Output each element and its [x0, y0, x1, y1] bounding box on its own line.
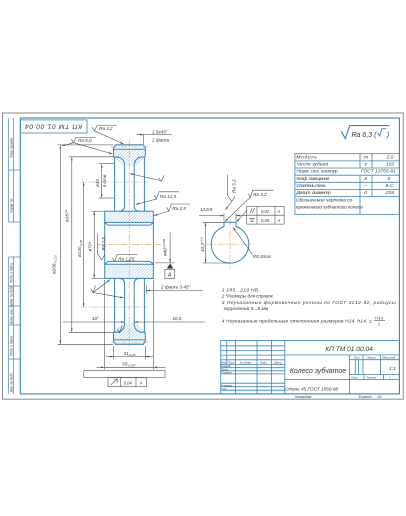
svg-text:–: – — [364, 184, 368, 189]
svg-text:Степень точн.: Степень точн. — [296, 183, 326, 189]
svg-text:Копировал: Копировал — [295, 395, 312, 399]
svg-text:КП ТМ 01.00.04: КП ТМ 01.00.04 — [325, 346, 373, 353]
svg-text:Изм.: Изм. — [221, 360, 227, 364]
svg-text:Формат: Формат — [359, 395, 372, 399]
svg-text:Ra 3,2: Ra 3,2 — [231, 179, 236, 193]
bore dim ext line — [155, 262, 175, 264]
symmetry frame — [247, 215, 284, 224]
web faces top — [124, 166, 126, 206]
ext lines 12Js9 — [223, 213, 225, 221]
svg-text:№ докум.: № докум. — [240, 360, 252, 364]
svg-text:0,05: 0,05 — [261, 218, 270, 223]
svg-text:скруглений 5...8 мм: скруглений 5...8 мм — [224, 305, 269, 312]
svg-text:А: А — [277, 218, 281, 223]
svg-text:0,02: 0,02 — [261, 209, 270, 214]
MAIN VIEW GROUP — [52, 126, 206, 387]
gear parameter table — [295, 154, 400, 215]
ext lines diameter 208 — [58, 144, 114, 146]
runout callout bar — [84, 371, 165, 378]
ext lines 43.3 — [203, 221, 224, 223]
svg-text:4 Неуказанные предельные откл: 4 Неуказанные предельные отклонения разм… — [222, 318, 372, 324]
svg-text:8-С: 8-С — [386, 183, 394, 189]
svg-text:.: . — [386, 319, 387, 324]
bore dim line dia 40H — [169, 232, 171, 262]
runout tolerance frame — [108, 378, 146, 387]
svg-text:ø70*: ø70* — [87, 242, 92, 252]
svg-text:m: m — [364, 155, 368, 160]
datum A triangle — [167, 263, 173, 268]
svg-text:Ra 12,5: Ra 12,5 — [160, 194, 177, 199]
roughness marks main view — [62, 126, 190, 333]
small v bottom rim — [117, 326, 122, 333]
svg-text:0,04: 0,04 — [124, 381, 133, 386]
svg-text:Ra 2,5: Ra 2,5 — [172, 206, 186, 211]
dim line dia 70 — [93, 212, 95, 278]
svg-text:2,0: 2,0 — [386, 154, 394, 160]
svg-text:Сталь 45 ГОСТ 1050-88: Сталь 45 ГОСТ 1050-88 — [285, 386, 339, 391]
leader from tolerance frames to keyway — [237, 211, 247, 222]
svg-text:Лист: Лист — [350, 376, 359, 380]
svg-text:Ra 1,25: Ra 1,25 — [118, 256, 135, 261]
dim line 50 — [97, 366, 105, 368]
bore chamfer edge top — [105, 221, 154, 223]
svg-text:Листов: Листов — [365, 376, 376, 380]
title block — [221, 341, 400, 400]
left margin rotated labels — [10, 137, 14, 392]
svg-text:А3: А3 — [377, 395, 382, 399]
Ra 12.5 leader — [136, 192, 179, 205]
Ra 2.5 right leader — [154, 204, 190, 216]
svg-text:Подп. и дата: Подп. и дата — [10, 263, 14, 283]
R0.3 leader — [233, 227, 252, 254]
svg-text:10,5: 10,5 — [173, 316, 182, 321]
svg-text:102: 102 — [386, 162, 394, 168]
parallelism frame — [247, 206, 284, 215]
Ra 1.25 in bore — [112, 254, 137, 261]
svg-text:Ra 5,0: Ra 5,0 — [78, 138, 92, 143]
svg-text:Перв. примен.: Перв. примен. — [10, 137, 14, 158]
pitch line top rim — [111, 146, 149, 148]
svg-text:Инв. № дубл.: Инв. № дубл. — [10, 285, 14, 305]
ext lines hole dia 40 — [99, 163, 114, 165]
hub top hatch band — [105, 211, 154, 222]
svg-text:IT14: IT14 — [375, 316, 384, 321]
svg-text:): ) — [386, 132, 389, 139]
centerline horizontal gear axis — [97, 244, 161, 246]
bore wall top — [108, 224, 150, 226]
small v web left leaders — [91, 285, 124, 297]
svg-text:Масса: Масса — [368, 356, 376, 360]
Ra 5.0 — [62, 137, 96, 146]
chamfer callout 1.5x45 — [143, 135, 145, 144]
DIMENSIONS main view — [58, 135, 206, 387]
ext lines diameter 187 — [69, 156, 113, 158]
rim bottom hatch — [114, 323, 146, 340]
fillet hatch top web/hub junction — [119, 206, 140, 211]
svg-text:Т.контр.: Т.контр. — [221, 371, 232, 375]
svg-text:КП ТМ 01.00.04: КП ТМ 01.00.04 — [25, 122, 82, 129]
ext lines width 50 — [104, 280, 106, 370]
Ra3.2 leader horizontal — [225, 190, 274, 221]
svg-text:d: d — [364, 190, 367, 196]
bottom rim — [114, 332, 146, 344]
signature rows — [221, 367, 285, 369]
centerline vertical axis of symmetry — [128, 140, 130, 351]
svg-text:Лит.: Лит. — [353, 356, 361, 360]
svg-text:Ra 2,5: Ra 2,5 — [101, 237, 106, 251]
svg-text:Инв. № подл.: Инв. № подл. — [10, 372, 14, 392]
centerline vertical bore — [229, 219, 231, 269]
centerline hole axis bottom — [81, 306, 148, 308]
bore chamfer diagonals bottom — [105, 261, 154, 264]
hole edge lines bottom web — [114, 278, 116, 332]
KEYWAY VIEW GROUP — [199, 175, 284, 269]
svg-text:0: 0 — [388, 176, 391, 182]
bore wall bottom — [108, 260, 150, 262]
svg-text:Коэф. смещения: Коэф. смещения — [296, 176, 329, 182]
svg-text:z: z — [364, 163, 368, 168]
page sheet — [3, 113, 404, 399]
svg-text:2 *Размеры для справок.: 2 *Размеры для справок. — [221, 294, 274, 300]
svg-text:Число зубьев: Число зубьев — [296, 162, 328, 168]
svg-text:А: А — [139, 381, 143, 386]
svg-text:Ra 3,2: Ra 3,2 — [99, 126, 113, 131]
lit massa masshtab — [350, 359, 400, 361]
pitch line bottom rim — [111, 341, 149, 343]
rotated Ra3.2 leader — [225, 175, 235, 211]
svg-text:Н.контр.: Н.контр. — [221, 383, 233, 387]
dim line dia 208 — [59, 145, 61, 344]
svg-text:Норм. исх. контур: Норм. исх. контур — [296, 169, 338, 175]
svg-text:Масштаб: Масштаб — [383, 356, 396, 360]
left margin stamp columns (lower) — [9, 257, 21, 394]
dim line dia 187 — [71, 157, 73, 332]
svg-text:1:1: 1:1 — [389, 366, 396, 372]
material cell top — [285, 379, 400, 381]
svg-text:Подп. и дата: Подп. и дата — [10, 336, 14, 356]
hole edge lines top web — [114, 157, 116, 211]
web fillets from hub (bottom) — [119, 278, 140, 284]
svg-text:ø187*: ø187* — [64, 210, 69, 222]
svg-text:10°: 10° — [92, 316, 99, 321]
svg-text:Утв.: Утв. — [221, 387, 227, 391]
svg-text:пряженного зубчатого колеса: пряженного зубчатого колеса — [296, 205, 363, 210]
notes text — [221, 288, 396, 327]
Ra 3.2 top — [92, 126, 123, 144]
bore chamfer diagonals top — [105, 222, 154, 225]
dim line 12Js9 — [199, 215, 224, 217]
svg-text:12Js9: 12Js9 — [200, 207, 213, 212]
gear outline: top rim — [105, 145, 154, 344]
fillets into bottom rim — [114, 324, 146, 333]
svg-text:Модуль: Модуль — [296, 154, 317, 160]
dim line 43.3 — [205, 223, 207, 263]
svg-text:2 фаски 3-45°: 2 фаски 3-45° — [160, 285, 191, 290]
chamfer callout 2 faski 3x45 leader — [147, 290, 204, 292]
designation cell bottom — [285, 354, 400, 356]
svg-text:Обозначение чертежа со-: Обозначение чертежа со- — [296, 197, 354, 202]
general roughness mark Ra 6,3 top right — [341, 126, 389, 139]
dim line hole dia 40 — [101, 164, 103, 198]
svg-text:Лист: Лист — [227, 360, 236, 364]
svg-text:3 Неуказанные формовочные укл: 3 Неуказанные формовочные уклоны по ГОСТ… — [222, 300, 396, 306]
svg-text:Подп.: Подп. — [260, 360, 267, 364]
web thickness dim 10,5 — [63, 321, 124, 323]
revision rows — [221, 345, 285, 347]
keyway dims — [199, 175, 284, 264]
web fillets into hub (top) — [119, 206, 140, 212]
ext lines width 31 — [113, 346, 115, 359]
rim top hatch — [114, 149, 146, 166]
svg-text:Справ. №: Справ. № — [10, 198, 14, 213]
bore circle with keyway slot — [211, 222, 249, 263]
svg-text:ГОСТ 13755-81: ГОСТ 13755-81 — [361, 169, 396, 175]
svg-text:Колесо зубчатое: Колесо зубчатое — [290, 367, 347, 375]
web faces bottom — [124, 284, 126, 324]
svg-text:Ra 3,2: Ra 3,2 — [253, 192, 267, 197]
unmarked surfaces check — [130, 174, 164, 182]
drawing frame — [20, 118, 399, 394]
centerline hole axis top — [81, 181, 148, 183]
svg-text:Взам. инв. №: Взам. инв. № — [10, 304, 14, 324]
svg-text:А: А — [277, 209, 281, 214]
svg-text:X: X — [363, 176, 368, 182]
dim line 31 — [106, 356, 113, 358]
hub bottom hatch band — [105, 264, 154, 278]
fillet hatch bottom web/hub junction — [119, 278, 140, 283]
dim line dia 130 bolt circle — [83, 182, 85, 306]
svg-text:Ra 6,3 (: Ra 6,3 ( — [352, 132, 378, 139]
svg-text:Делит. диаметр: Делит. диаметр — [295, 190, 331, 196]
rim underside + fillets into web (top) — [114, 157, 146, 166]
centerline horizontal bore — [206, 243, 254, 245]
svg-text:204: 204 — [385, 190, 394, 196]
dim texts main view — [52, 129, 191, 385]
svg-text:А: А — [167, 273, 172, 279]
svg-text:1.5х45°: 1.5х45° — [152, 129, 168, 134]
svg-text:Дата: Дата — [274, 360, 283, 364]
top-left inverted designation stamp — [20, 120, 87, 133]
bore chamfer edge bottom — [105, 263, 154, 265]
hub body — [105, 211, 154, 278]
svg-text:4 отв.: 4 отв. — [102, 174, 107, 188]
svg-text:2 фаски: 2 фаски — [151, 138, 170, 143]
ext lines diameter 70 — [92, 210, 105, 212]
Ra 2.5 left rotated — [97, 234, 105, 260]
svg-text:1 195...210 НВ.: 1 195...210 НВ. — [222, 288, 260, 294]
left margin stamp columns (upper) — [9, 118, 21, 222]
svg-text:R0,3max: R0,3max — [253, 254, 272, 259]
svg-text:ø40: ø40 — [95, 179, 100, 187]
